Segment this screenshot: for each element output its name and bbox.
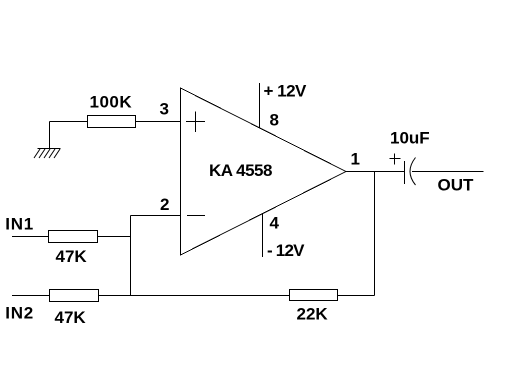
wire ground to R1 (50, 122, 88, 149)
resistor R3 (50, 290, 99, 302)
svg-text:- 12V: - 12V (267, 241, 305, 260)
svg-text:2: 2 (160, 195, 169, 214)
svg-text:KA 4558: KA 4558 (209, 161, 272, 180)
plus input symbol (186, 112, 205, 133)
wire R3 to R4 (99, 295, 290, 297)
svg-text:IN1: IN1 (5, 215, 34, 234)
wire pin 2 (131, 215, 181, 217)
ground (34, 149, 61, 159)
wire output to capacitor (346, 171, 405, 173)
pin 4 wire (262, 214, 264, 257)
svg-text:IN2: IN2 (5, 304, 34, 323)
op-amp U1 (181, 88, 347, 255)
wire IN2 to R3 (12, 295, 50, 297)
svg-text:3: 3 (160, 100, 169, 119)
wire IN1 to R2 (12, 236, 49, 238)
minus input symbol (187, 215, 205, 217)
wire R2 to summing node (98, 236, 131, 238)
svg-text:47K: 47K (56, 247, 88, 266)
wire capacitor to OUT (412, 171, 484, 173)
svg-text:47K: 47K (55, 308, 87, 327)
svg-text:+ 12V: + 12V (264, 82, 308, 101)
svg-text:8: 8 (270, 111, 279, 130)
pin 8 wire (259, 83, 261, 128)
resistor R1 (88, 116, 136, 128)
svg-text:100K: 100K (90, 93, 133, 112)
resistor R2 (49, 231, 98, 243)
wire R1 to pin 3 (136, 121, 181, 123)
svg-text:10uF: 10uF (390, 129, 430, 148)
wire R4 to feedback (338, 295, 375, 297)
feedback wire vertical (374, 172, 376, 296)
capacitor C1 (405, 158, 416, 186)
summing node wire vertical (130, 216, 132, 296)
svg-text:22K: 22K (297, 305, 329, 324)
svg-text:4: 4 (270, 214, 280, 233)
resistor R4 (290, 290, 338, 301)
svg-text:OUT: OUT (438, 176, 475, 195)
svg-text:1: 1 (351, 150, 360, 169)
capacitor C1 polarity plus (390, 154, 401, 165)
